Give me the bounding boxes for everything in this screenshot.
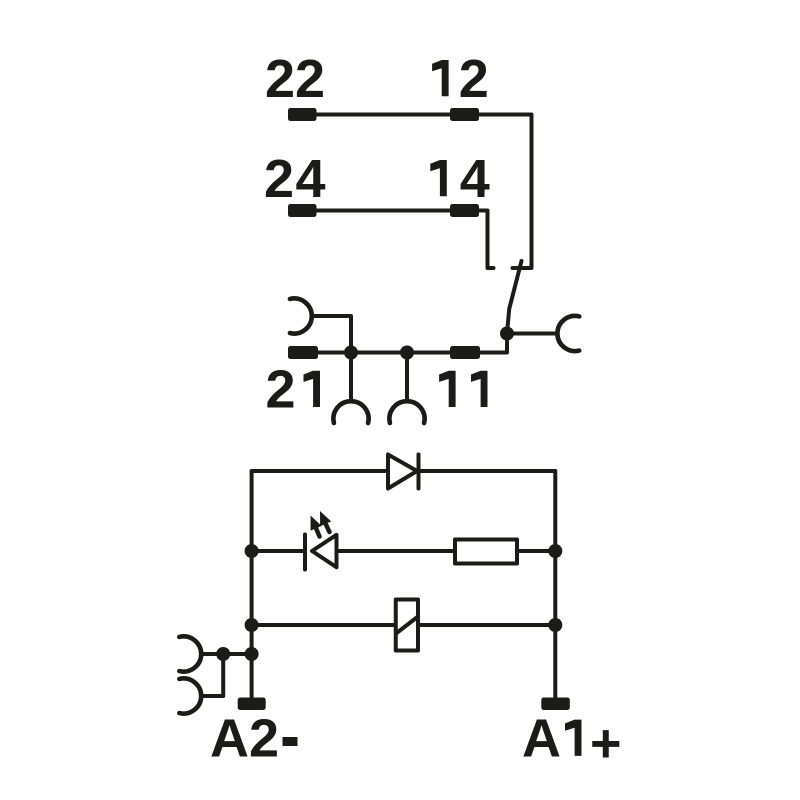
diode D1 triangle (388, 455, 417, 489)
wire node1 down to bottom socket (349, 353, 353, 402)
wire bottom row left (to coil) (252, 623, 396, 627)
relay coil K1 body (396, 600, 418, 651)
svg-text:2: 2 (266, 360, 296, 420)
node dot test branch (216, 647, 230, 661)
label 11 (439, 371, 456, 407)
wire middle row left (to LED cathode) (252, 549, 305, 553)
wire bottom row right (coil to rail) (418, 623, 555, 627)
wire middle row center (LED to resistor) (337, 549, 456, 553)
wire COM net: pad21 along row to riser up to pivot (302, 334, 507, 353)
wire branch down to lower test socket (201, 654, 223, 696)
socket below node2 (opening down) (389, 401, 424, 423)
terminal pad 21 (288, 346, 318, 359)
socket upper test (opening left) (179, 636, 201, 671)
node dot rail at test branch (245, 647, 259, 661)
wire upper test socket to rail (201, 652, 252, 656)
wire NO net: pad24 to pad14 to corner down to NO contact tick (302, 211, 494, 269)
wire node2 down to bottom socket (405, 353, 409, 402)
label 14 (430, 160, 447, 196)
socket upper-left (opening left) (290, 298, 312, 333)
terminal pad 14 (450, 204, 479, 217)
svg-text:A: A (522, 709, 561, 769)
svg-text:2: 2 (249, 709, 279, 769)
node junction dot 1 (344, 346, 358, 360)
svg-text:A: A (210, 709, 249, 769)
wire NC net: pad22 to pad12 to corner down to NC contact tick (302, 115, 532, 269)
label 12 (432, 60, 449, 96)
terminal pad A2- (238, 698, 266, 711)
svg-text:+: + (590, 714, 622, 774)
terminal pad A1+ (541, 698, 570, 711)
wire right rail A1+ side (419, 471, 556, 698)
node pivot junction dot (500, 327, 514, 341)
node dot left rail middle (245, 544, 259, 558)
socket below node1 (opening down) (333, 401, 368, 423)
svg-text:2: 2 (459, 49, 489, 109)
resistor R1 (455, 540, 517, 564)
socket lower test (opening left) (179, 678, 201, 713)
terminal pad 22 (288, 108, 317, 121)
node dot left rail bottom (245, 618, 259, 632)
node dot right rail bottom (548, 618, 562, 632)
LED arrow 2 (320, 511, 331, 532)
svg-text:22: 22 (265, 49, 325, 109)
diode D1 cathode bar (417, 455, 421, 489)
terminal pad 24 (288, 204, 317, 217)
relay coil K1 diagonal (396, 617, 418, 634)
LED cathode bar (303, 535, 307, 570)
wire upper-left socket branch down to node (312, 316, 352, 353)
socket right of pivot (opening right) (557, 316, 579, 351)
wire pivot to right socket (507, 332, 558, 336)
svg-text:24: 24 (264, 149, 327, 209)
LED arrow 1 (311, 516, 322, 537)
wire left rail A2- side (252, 471, 389, 698)
wire middle row right (resistor to rail) (517, 549, 555, 553)
node dot right rail middle (548, 544, 562, 558)
LED triangle (312, 535, 337, 567)
switch armature (changeover contact) (507, 261, 522, 334)
node junction dot 2 (400, 346, 414, 360)
terminal pad 11 (450, 346, 480, 359)
terminal pad 12 (450, 108, 479, 121)
svg-text:4: 4 (460, 149, 490, 209)
